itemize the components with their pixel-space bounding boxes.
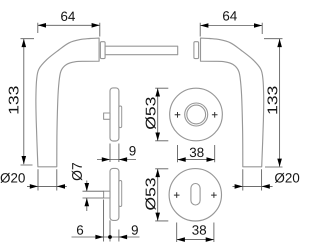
label 6	[77, 225, 83, 234]
dimension O20 left: dim line	[27, 185, 67, 187]
dimension 133 left: extension lines	[21, 39, 35, 165]
dimension O20 left: extension lines	[38, 169, 57, 190]
label O20 right	[275, 173, 299, 183]
rosette front bottom: screw cross right	[211, 192, 217, 198]
dimension 64 left: arrows	[38, 23, 100, 28]
dimension 6/9 bottom: arrows and junction dot	[95, 235, 127, 240]
dimension O53 top: dim line	[157, 88, 159, 140]
dimension O53 bottom: arrows	[155, 169, 160, 221]
dimension 38 top: dim line	[178, 159, 215, 161]
label O53 bottom (rotated)	[145, 178, 155, 210]
label 64 left	[61, 12, 75, 21]
dimension 6/9 bottom: extension lines	[104, 200, 119, 242]
rosette front top: outer circle	[170, 88, 223, 141]
collar left handle	[100, 42, 105, 59]
rosette side view top: bearing bump	[119, 106, 122, 128]
label 38 top	[190, 148, 204, 157]
label O20 left	[1, 173, 25, 183]
rosette front bottom: screw cross left	[174, 192, 180, 198]
dimension O53 top: arrows	[155, 88, 160, 140]
dimension 9 top: extension lines	[110, 144, 119, 163]
rosette front top: screw cross left	[175, 112, 181, 118]
dimension 133 left: dim line	[23, 39, 25, 164]
spindle bar	[105, 46, 178, 55]
dimension 64 left: dim line	[38, 24, 100, 26]
dimension 64 right: dim line	[200, 25, 262, 27]
rosette front top: screw cross right	[212, 112, 218, 118]
dimension 38 bottom: extension lines	[177, 223, 214, 243]
collar right handle	[194, 42, 199, 59]
dimension 64 right: arrows	[200, 23, 262, 28]
rosette front top: hub hole	[187, 105, 206, 124]
rosette side view bottom: key tab	[104, 191, 110, 198]
label O7 (rotated)	[72, 163, 82, 180]
label 133 right (rotated)	[267, 86, 277, 113]
rosette side view top: square spindle tab	[104, 113, 110, 119]
dimension 9 top: arrows	[102, 157, 127, 162]
dimension 64 left: extension lines	[38, 23, 100, 37]
dimension O20 right: extension lines	[243, 169, 262, 190]
lever handle right (outline)	[201, 38, 264, 167]
label 9 top	[129, 146, 135, 155]
dimension 133 left: arrows	[22, 39, 27, 164]
rosette side view top: body	[110, 88, 119, 141]
lever handle left (outline)	[36, 38, 99, 167]
dimension O20 right: arrows	[235, 184, 270, 189]
label 133 left (rotated)	[9, 86, 19, 113]
dimension O53 bottom: extension lines	[155, 169, 168, 221]
rosette front top: hub ring	[185, 103, 208, 126]
dimension O20 right: dim line	[233, 185, 273, 187]
dimension 38 bottom: arrows	[177, 237, 214, 242]
dimension 64 right: extension lines	[200, 23, 262, 37]
dimension O7: extension lines	[83, 191, 104, 198]
rosette side view bottom: body	[110, 168, 119, 220]
rosette front bottom (key): outer circle	[169, 169, 221, 221]
rosette front bottom: keyhole slot	[191, 184, 200, 206]
dimension 9 top: dim line	[97, 159, 136, 161]
dimension O7: arrows	[85, 183, 90, 206]
dimension 133 right: dim line	[279, 39, 281, 167]
dimension O53 top: extension lines	[155, 88, 168, 141]
dimension 133 right: extension lines	[264, 39, 283, 167]
dimension 38 top: arrows	[178, 157, 215, 162]
rosette side view bottom: bump	[119, 181, 122, 207]
label 64 right	[223, 11, 237, 20]
dimension 38 top: extension lines	[178, 145, 215, 162]
dimension 38 bottom: dim line	[177, 239, 214, 241]
dimension O7: dim line segments	[86, 181, 88, 212]
dimension 133 right: arrows	[277, 39, 282, 167]
dimension 6/9 bottom: dim line	[72, 236, 140, 238]
label 9 bottom	[132, 225, 138, 234]
label 38 bottom	[192, 225, 206, 234]
dimension O20 left: arrows	[30, 184, 65, 189]
dimension O53 bottom: dim line	[157, 169, 159, 221]
label O53 top (rotated)	[145, 97, 155, 129]
